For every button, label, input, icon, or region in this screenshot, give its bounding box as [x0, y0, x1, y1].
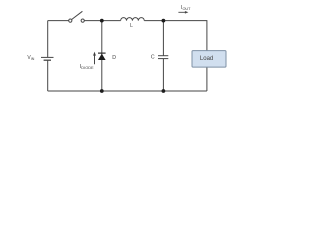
IDIODE current arrow	[94, 55, 96, 64]
wire load bottom to rail	[206, 67, 208, 91]
wire capacitor branch top	[162, 21, 164, 56]
battery VIN long plate	[41, 56, 54, 58]
battery VIN short plate	[44, 59, 51, 61]
node junction dot bottom (diode)	[100, 89, 104, 93]
svg-text:IDIODE: IDIODE	[80, 64, 94, 70]
svg-text:L: L	[130, 23, 133, 29]
diode D cathode bar	[98, 52, 106, 54]
svg-text:D: D	[112, 55, 116, 61]
wire top mid segment (switch to inductor)	[85, 20, 121, 22]
wire top-left segment	[48, 20, 69, 22]
wire top right segment (inductor to corner, down to load)	[144, 21, 207, 51]
inductor L coil	[121, 18, 145, 21]
node junction dot bottom (cap)	[162, 89, 166, 93]
wire left branch (Vin top)	[47, 21, 49, 58]
diode D triangle	[98, 54, 106, 60]
svg-text:Load: Load	[200, 56, 213, 62]
node junction dot top (cap tap)	[162, 19, 166, 23]
wire diode branch	[101, 21, 103, 91]
svg-text:VIN: VIN	[27, 55, 34, 61]
svg-text:IOUT: IOUT	[181, 5, 191, 11]
wire left branch (Vin bottom)	[47, 60, 49, 91]
wire bottom rail	[48, 90, 207, 92]
capacitor C bottom plate	[158, 58, 168, 60]
svg-text:C: C	[151, 55, 155, 61]
capacitor C top plate	[158, 55, 168, 57]
node junction dot top (diode tap)	[100, 19, 104, 23]
load box	[192, 51, 226, 68]
switch S blade	[72, 11, 83, 19]
IOUT current arrow	[178, 11, 185, 13]
wire capacitor branch bottom	[162, 59, 164, 91]
switch S terminal circles	[69, 19, 85, 22]
